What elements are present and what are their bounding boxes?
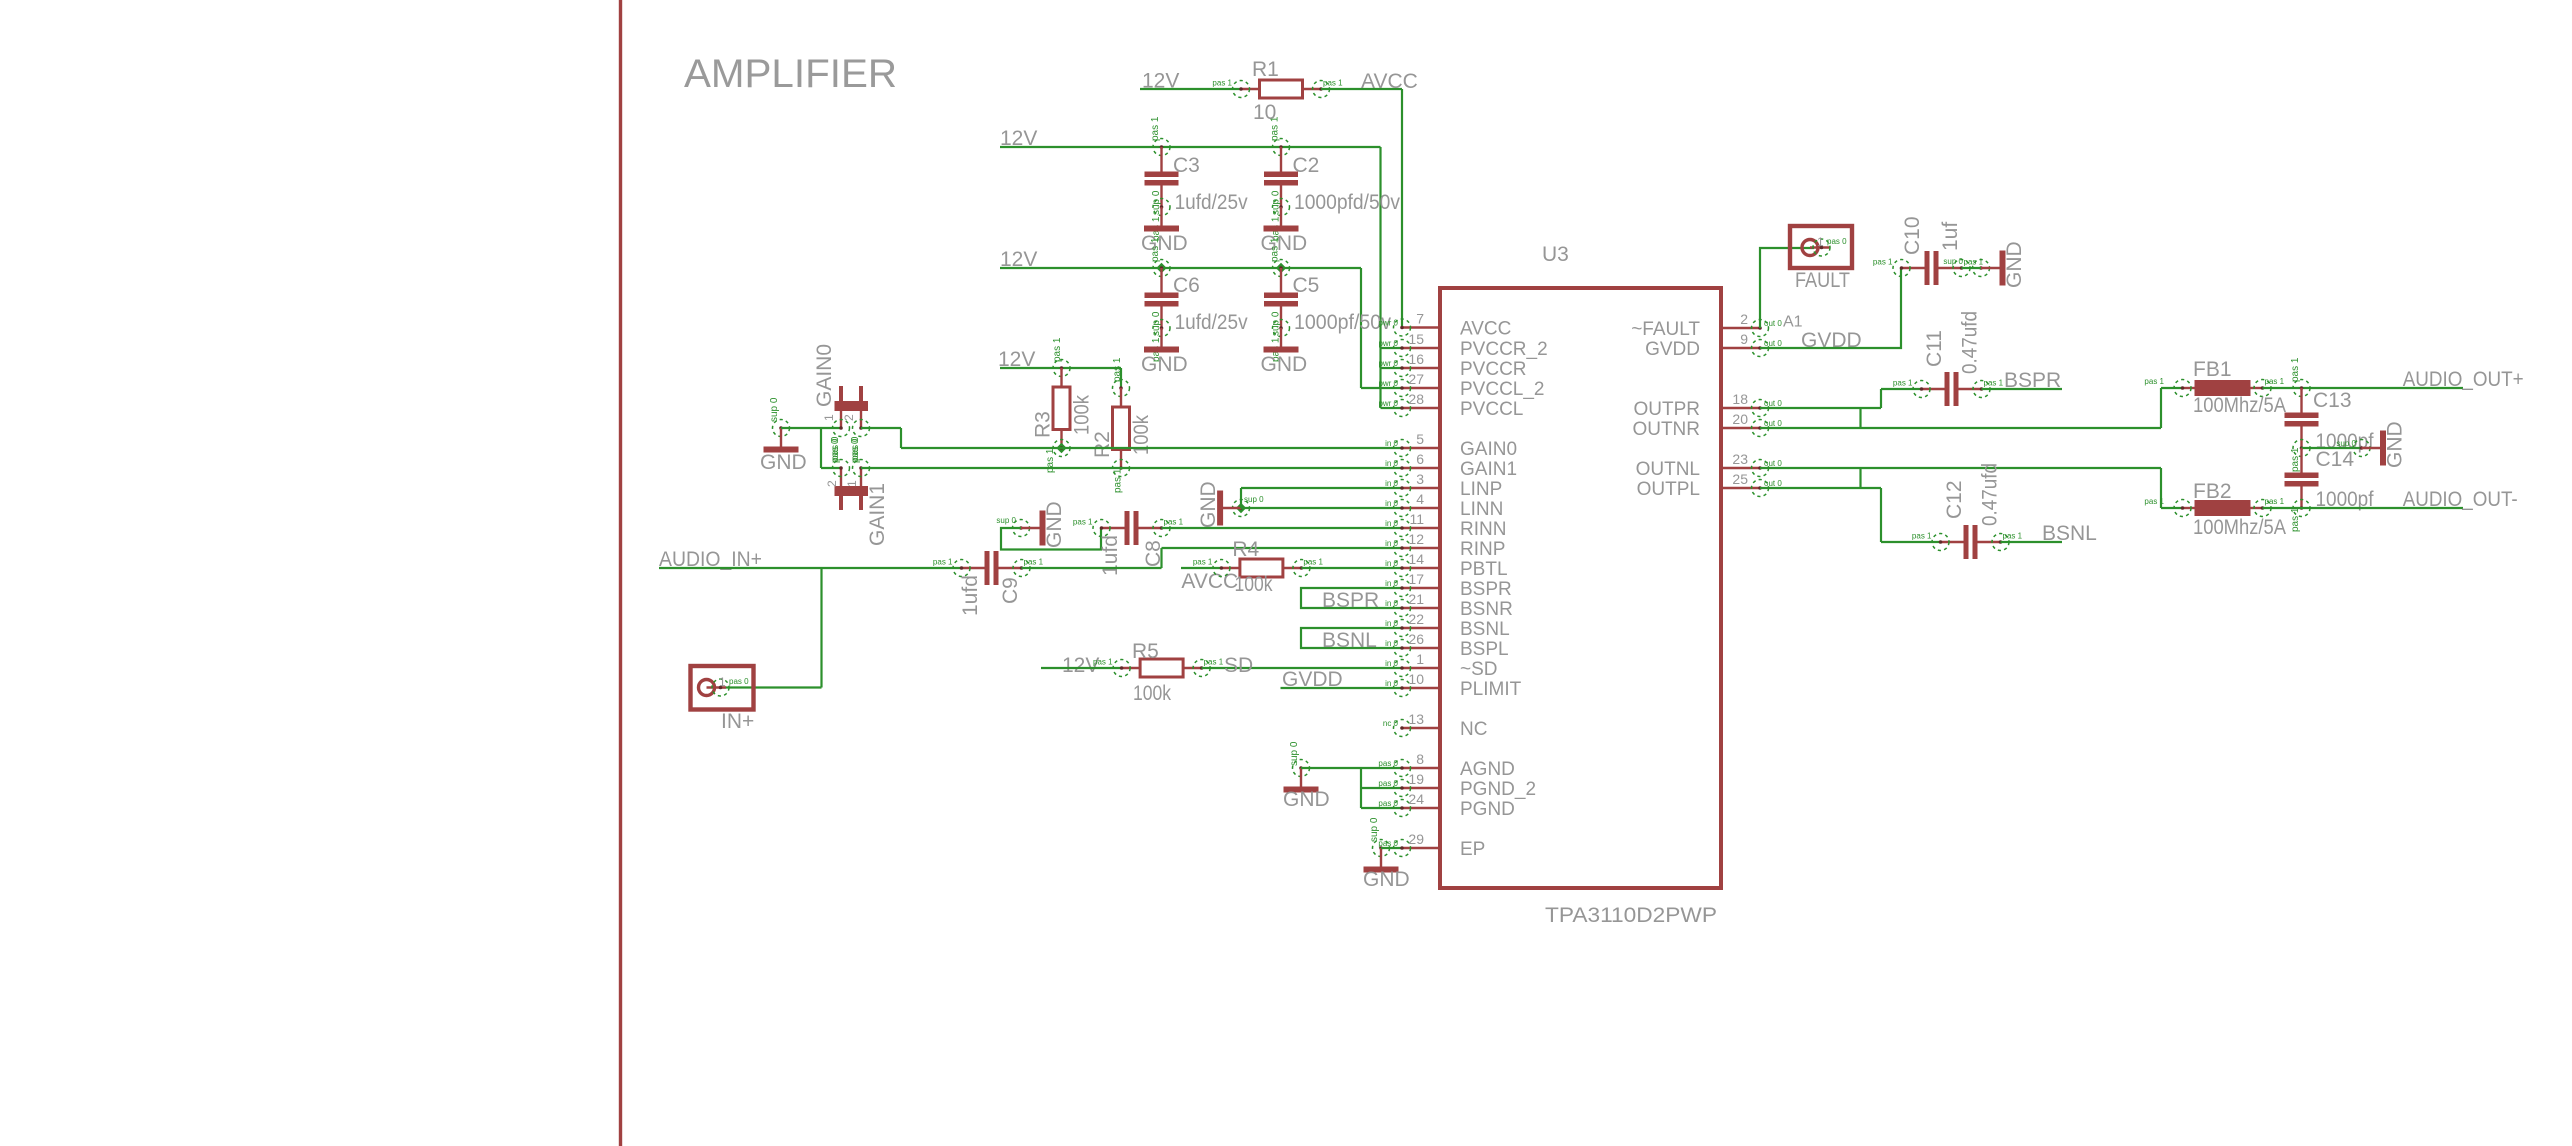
svg-text:3: 3 — [1416, 471, 1424, 487]
svg-text:OUTPL: OUTPL — [1637, 479, 1700, 500]
svg-text:BSNL: BSNL — [2042, 522, 2097, 545]
svg-text:in 0: in 0 — [1385, 559, 1398, 568]
svg-text:8: 8 — [1416, 751, 1424, 767]
GAIN0 pin 1 — [833, 420, 850, 437]
ground symbol at AGND — [1300, 768, 1302, 787]
svg-text:sup 0: sup 0 — [1289, 741, 1300, 766]
svg-text:BSPR: BSPR — [2004, 369, 2061, 392]
U3 pin 29 EP — [1402, 847, 1440, 849]
FAULT pin 1 — [1813, 239, 1830, 256]
wire pin2 to FAULT connector — [1760, 248, 1814, 328]
junction C5 top on rail 2 — [1276, 263, 1286, 273]
U3 pin 9 GVDD — [1721, 347, 1760, 349]
wire OUTPL pin 25 — [1760, 487, 1881, 489]
C11 pin 1 — [1913, 381, 1930, 398]
wire GAIN1 net to pin 6 — [861, 467, 1402, 469]
C8 pin 2 — [1153, 520, 1170, 537]
wire C8 to RINN pin 11 — [1162, 527, 1403, 529]
U3 pin 27 PVCCL_2 — [1402, 387, 1440, 389]
svg-text:5: 5 — [1416, 431, 1424, 447]
svg-text:20: 20 — [1732, 411, 1748, 427]
svg-text:pas 0: pas 0 — [850, 438, 861, 463]
svg-text:AMPLIFIER: AMPLIFIER — [684, 52, 897, 96]
svg-text:R4: R4 — [1232, 538, 1259, 561]
R1 pin 2 — [1313, 81, 1330, 98]
wire to PGND_2 pin 19 — [1361, 787, 1402, 789]
C14 bottom pin on AUDIO_OUT- — [2293, 500, 2310, 517]
C9 pin 1 — [953, 560, 970, 577]
svg-text:pas 1: pas 1 — [1270, 116, 1281, 141]
U3 pin 18 OUTPR — [1721, 407, 1760, 409]
svg-text:AUDIO_OUT-: AUDIO_OUT- — [2403, 488, 2518, 511]
wire stub to pin 16 — [1381, 367, 1403, 369]
svg-text:1ufd/25v: 1ufd/25v — [1175, 311, 1248, 334]
wire AUDIO_OUT- — [2263, 507, 2464, 509]
svg-text:29: 29 — [1408, 831, 1424, 847]
FB2 pin 1 — [2174, 500, 2191, 517]
GAIN0 pin 2 — [853, 420, 870, 437]
svg-text:4: 4 — [1416, 491, 1424, 507]
svg-text:1: 1 — [719, 675, 726, 689]
GAIN1 pin 2 — [833, 460, 850, 477]
wire to C12 — [1881, 541, 1941, 543]
schematic frame border line — [619, 0, 622, 1146]
svg-text:out 0: out 0 — [1764, 479, 1782, 488]
R4 pin 1 — [1213, 560, 1230, 577]
svg-text:1000pf/50v: 1000pf/50v — [1294, 311, 1391, 334]
svg-text:pas 1: pas 1 — [1303, 558, 1323, 567]
svg-text:1: 1 — [1817, 235, 1824, 249]
svg-text:17: 17 — [1408, 571, 1424, 587]
resistor R2 — [1120, 388, 1122, 407]
capacitor C3 top pin — [1153, 139, 1170, 156]
svg-text:pwr 0: pwr 0 — [1378, 319, 1398, 328]
U3 pin 19 PGND_2 — [1402, 787, 1440, 789]
wire up to C11 row — [1880, 389, 1882, 408]
ground pin at EP — [1373, 840, 1390, 857]
wire mid to ground — [2302, 447, 2362, 449]
U3 pin 7 AVCC — [1402, 326, 1440, 328]
svg-text:14: 14 — [1408, 551, 1424, 567]
svg-text:BSNL: BSNL — [1322, 629, 1377, 652]
svg-text:FB2: FB2 — [2193, 480, 2232, 503]
wire RINP to pin 12 — [1162, 547, 1403, 549]
ground symbol right of C13 — [2362, 447, 2381, 449]
svg-text:in 0: in 0 — [1385, 679, 1398, 688]
ground under C2 — [1280, 207, 1282, 226]
U3 pin 3 LINP — [1402, 487, 1440, 489]
svg-text:pas 0: pas 0 — [1378, 779, 1398, 788]
svg-text:PVCCR_2: PVCCR_2 — [1460, 339, 1548, 360]
svg-text:23: 23 — [1732, 451, 1748, 467]
svg-text:C14: C14 — [2316, 448, 2355, 471]
wire GND detour to C8 pin 1 — [1001, 528, 1101, 550]
svg-text:OUTNL: OUTNL — [1636, 459, 1700, 480]
svg-text:pwr 0: pwr 0 — [1378, 379, 1398, 388]
svg-text:6: 6 — [1416, 451, 1424, 467]
svg-text:C13: C13 — [2313, 389, 2352, 412]
svg-text:AVCC: AVCC — [1361, 70, 1418, 93]
wire GAIN0 pin2 right — [861, 427, 901, 429]
ground symbol right of C10 — [1981, 267, 2000, 269]
svg-text:OUTPR: OUTPR — [1634, 399, 1701, 420]
capacitor C12 — [1941, 541, 1964, 543]
svg-text:11: 11 — [1409, 511, 1424, 527]
resistor R3 — [1060, 368, 1062, 387]
svg-text:pas 1: pas 1 — [1193, 558, 1213, 567]
C11 pin 2 — [1973, 381, 1990, 398]
svg-text:FB1: FB1 — [2193, 358, 2232, 381]
wire AUDIO_IN+ to C9 — [659, 567, 962, 569]
svg-text:sup 0: sup 0 — [2336, 439, 2356, 448]
svg-text:sup 0: sup 0 — [1943, 257, 1963, 266]
C5 bottom pin junction — [1273, 320, 1290, 337]
wire pin9 GVDD to C10 — [1760, 268, 1901, 348]
ground symbol at EP — [1380, 848, 1382, 867]
capacitor C9 — [962, 567, 985, 569]
ground at GAIN jumpers — [773, 420, 790, 437]
wire C11 to BSPR stub — [1982, 388, 2063, 390]
wire IN+ connector to riser — [721, 686, 822, 688]
svg-text:pas 1: pas 1 — [1073, 518, 1093, 527]
svg-text:R2: R2 — [1091, 431, 1114, 458]
svg-text:pas 1: pas 1 — [2290, 507, 2301, 532]
C6 bottom pin junction — [1153, 320, 1170, 337]
wire AUDIO_IN+ down to IN+ — [820, 568, 822, 688]
R1 pin 1 — [1233, 81, 1250, 98]
U3 pin 20 OUTNR — [1721, 427, 1760, 429]
U3 pin 8 AGND — [1402, 767, 1440, 769]
svg-text:pas 1: pas 1 — [1113, 468, 1124, 493]
U3 pin 25 OUTPL — [1721, 487, 1760, 489]
wire riser to FB2 — [2160, 468, 2162, 508]
R4 pin 2 — [1293, 560, 1310, 577]
svg-text:100k: 100k — [1235, 573, 1273, 596]
svg-text:GAIN1: GAIN1 — [866, 483, 889, 546]
capacitor C3 — [1160, 147, 1162, 172]
svg-text:28: 28 — [1408, 391, 1424, 407]
svg-text:FAULT: FAULT — [1795, 269, 1850, 292]
svg-text:13: 13 — [1408, 711, 1424, 727]
svg-text:16: 16 — [1408, 351, 1424, 367]
R2 top pin — [1113, 380, 1130, 397]
resistor R1 — [1241, 88, 1260, 90]
R5 pin 1 — [1113, 660, 1130, 677]
capacitor C10 — [1902, 267, 1925, 269]
C10 pin 2 — [1953, 260, 1970, 277]
svg-text:GND: GND — [1141, 232, 1188, 255]
svg-text:out 0: out 0 — [1764, 459, 1782, 468]
U3 pin 5 GAIN0 — [1402, 447, 1440, 449]
wire R1 to AVCC corner — [1321, 88, 1402, 90]
wire AVCC to R4 — [1181, 567, 1221, 569]
svg-text:pas 1: pas 1 — [1323, 79, 1343, 88]
svg-text:in 0: in 0 — [1385, 659, 1398, 668]
wire 12V to R5 — [1041, 667, 1122, 669]
ground symbol GAIN area — [780, 428, 782, 447]
svg-text:C9: C9 — [999, 577, 1022, 604]
svg-text:in 0: in 0 — [1385, 599, 1398, 608]
svg-text:pas 1: pas 1 — [2265, 497, 2285, 506]
svg-text:in 0: in 0 — [1385, 619, 1398, 628]
wire GND to AGND pin 8 — [1301, 767, 1402, 769]
jumper GAIN0 — [835, 401, 869, 411]
svg-text:7: 7 — [1416, 311, 1424, 327]
svg-text:pas 1: pas 1 — [2144, 497, 2164, 506]
wire 12V rail 3 — [1000, 367, 1121, 369]
svg-text:GND: GND — [1363, 868, 1410, 891]
capacitor C2 — [1280, 147, 1282, 172]
wire 12V rail 2 — [1000, 267, 1361, 269]
svg-text:~FAULT: ~FAULT — [1631, 319, 1700, 340]
U3 pin 13 NC — [1402, 727, 1440, 729]
svg-text:C5: C5 — [1293, 274, 1320, 297]
U3 pin 15 PVCCR_2 — [1402, 347, 1440, 349]
ground under C6 — [1160, 328, 1162, 347]
wire OUTNL pin 23 to FB2 riser — [1760, 467, 2161, 469]
svg-text:pas 1: pas 1 — [1873, 258, 1893, 267]
svg-text:C3: C3 — [1173, 154, 1200, 177]
svg-text:pas 1: pas 1 — [1164, 518, 1184, 527]
svg-text:PGND: PGND — [1460, 799, 1515, 820]
ground under C3 — [1160, 207, 1162, 226]
svg-text:pas 0: pas 0 — [1378, 799, 1398, 808]
svg-text:in 0: in 0 — [1385, 499, 1398, 508]
svg-text:GND: GND — [2384, 421, 2407, 468]
U3 pin 26 BSPL — [1402, 647, 1440, 649]
svg-text:pas 1: pas 1 — [1045, 448, 1056, 473]
wire corner up — [1160, 548, 1162, 568]
jumper GAIN1 — [835, 486, 869, 496]
resistor R4 — [1221, 567, 1240, 569]
IC U3 TPA3110D2PWP body — [1440, 288, 1721, 888]
wire rail2 vertical to pin 27 — [1360, 268, 1362, 388]
wire R5 to ~SD pin 1 — [1202, 667, 1402, 669]
svg-text:pwr 0: pwr 0 — [1378, 359, 1398, 368]
svg-text:C12: C12 — [1943, 480, 1966, 519]
svg-text:PGND_2: PGND_2 — [1460, 779, 1536, 800]
svg-text:pas 1: pas 1 — [2290, 357, 2301, 382]
capacitor C11 — [1922, 388, 1945, 390]
svg-text:2: 2 — [825, 480, 839, 487]
svg-text:PVCCR: PVCCR — [1460, 359, 1527, 380]
svg-text:2: 2 — [1740, 311, 1748, 327]
wire GND to GAIN0 pin 1 — [781, 427, 841, 429]
svg-text:pwr 0: pwr 0 — [1378, 399, 1398, 408]
svg-text:pas 1: pas 1 — [1893, 379, 1913, 388]
svg-text:PVCCL_2: PVCCL_2 — [1460, 379, 1545, 400]
svg-text:~SD: ~SD — [1460, 659, 1498, 680]
C8 pin 1 — [1093, 520, 1110, 537]
C3 bottom pin junction — [1153, 199, 1170, 216]
wire 12V rail 1 — [1000, 146, 1381, 148]
svg-text:A1: A1 — [1783, 314, 1803, 331]
wire LINP branch vertical — [1240, 488, 1242, 508]
svg-text:GAIN0: GAIN0 — [1460, 439, 1517, 460]
R2 bottom pin — [1113, 460, 1130, 477]
svg-text:pas 1: pas 1 — [1112, 357, 1123, 382]
svg-text:in 0: in 0 — [1385, 439, 1398, 448]
connector FAULT — [1790, 226, 1852, 268]
svg-text:C11: C11 — [1923, 330, 1946, 367]
wire stub to pin 28 — [1381, 407, 1403, 409]
svg-text:SD: SD — [1224, 654, 1253, 677]
svg-text:sup 0: sup 0 — [996, 516, 1016, 525]
ferrite bead FB1 — [2183, 387, 2195, 389]
svg-text:IN+: IN+ — [721, 710, 754, 733]
ferrite bead FB2 — [2183, 507, 2195, 509]
ground symbol at C8 — [1021, 527, 1040, 529]
wire R4 to PBTL pin 14 — [1302, 567, 1403, 569]
svg-text:pas 1: pas 1 — [1024, 558, 1044, 567]
svg-text:pas 1: pas 1 — [1912, 532, 1932, 541]
svg-text:out 0: out 0 — [1764, 319, 1782, 328]
svg-text:C10: C10 — [1901, 216, 1924, 255]
svg-text:in 0: in 0 — [1385, 579, 1398, 588]
svg-text:pas 0: pas 0 — [830, 438, 841, 463]
svg-text:NC: NC — [1460, 719, 1487, 740]
junction C6 top on rail 2 — [1156, 263, 1166, 273]
wire 12V to R1 — [1140, 88, 1241, 90]
svg-text:100k: 100k — [1133, 682, 1171, 705]
svg-text:sup 0: sup 0 — [1244, 495, 1264, 504]
svg-text:AVCC: AVCC — [1181, 570, 1238, 593]
C12 pin 1 — [1932, 534, 1949, 551]
U3 pin 16 PVCCR — [1402, 367, 1440, 369]
svg-text:1: 1 — [822, 414, 836, 421]
svg-text:AGND: AGND — [1460, 759, 1515, 780]
ground pin at AGND — [1293, 760, 1310, 777]
FB1 pin 2 — [2254, 380, 2271, 397]
U3 pin 23 OUTNL — [1721, 467, 1760, 469]
svg-text:in 0: in 0 — [1385, 539, 1398, 548]
FB1 pin 1 — [2174, 380, 2191, 397]
svg-text:19: 19 — [1408, 771, 1424, 787]
ground symbol at LINN — [1223, 507, 1242, 509]
wire BSPR loop pins 17-21 — [1301, 588, 1402, 608]
svg-text:1ufd: 1ufd — [1099, 535, 1122, 576]
wire to PGND pin 24 — [1361, 807, 1402, 809]
wire GVDD to PLIMIT pin 10 — [1281, 687, 1403, 689]
wire C9 to corner — [1022, 567, 1162, 569]
svg-text:1: 1 — [845, 480, 859, 487]
wire to C11 — [1881, 388, 1921, 390]
svg-text:pas 0: pas 0 — [1378, 839, 1398, 848]
svg-text:RINP: RINP — [1460, 539, 1505, 560]
svg-text:BSNL: BSNL — [1460, 619, 1510, 640]
ground pin right of C10 — [1973, 260, 1990, 277]
svg-text:sup 0: sup 0 — [769, 397, 780, 422]
U3 pin 1 ~SD — [1402, 667, 1440, 669]
svg-text:0.47ufd: 0.47ufd — [1979, 463, 2002, 526]
svg-text:pwr 0: pwr 0 — [1378, 339, 1398, 348]
svg-text:LINP: LINP — [1460, 479, 1502, 500]
U3 pin 10 PLIMIT — [1402, 687, 1440, 689]
capacitor C14 — [2300, 448, 2302, 473]
svg-text:EP: EP — [1460, 839, 1485, 860]
wire stub to pin 15 — [1381, 347, 1403, 349]
junction LINN ground — [1236, 503, 1246, 513]
svg-text:10: 10 — [1408, 671, 1424, 687]
svg-text:C2: C2 — [1293, 154, 1320, 177]
svg-text:22: 22 — [1408, 611, 1424, 627]
C12 pin 2 — [1992, 534, 2009, 551]
svg-text:PVCCL: PVCCL — [1460, 399, 1523, 420]
svg-text:pas 1: pas 1 — [1204, 658, 1224, 667]
wire GAIN0 net to pin 5 — [901, 447, 1402, 449]
svg-text:pas 0: pas 0 — [1827, 237, 1847, 246]
wire BSNL loop pins 22-26 — [1301, 628, 1402, 648]
svg-text:out 0: out 0 — [1764, 419, 1782, 428]
svg-text:PLIMIT: PLIMIT — [1460, 679, 1522, 700]
svg-text:15: 15 — [1408, 331, 1424, 347]
svg-text:RINN: RINN — [1460, 519, 1506, 540]
connector IN+ — [691, 666, 754, 710]
svg-text:GND: GND — [1141, 353, 1188, 376]
svg-text:26: 26 — [1408, 631, 1424, 647]
svg-text:GND: GND — [1261, 232, 1308, 255]
wire down to GAIN0 net row — [900, 428, 902, 448]
svg-text:OUTNR: OUTNR — [1632, 419, 1700, 440]
R5 pin 2 — [1193, 660, 1210, 677]
wire OUTPR pin 18 — [1760, 407, 1881, 409]
U3 pin 4 LINN — [1402, 507, 1440, 509]
svg-text:LINN: LINN — [1460, 499, 1503, 520]
svg-text:in 0: in 0 — [1385, 639, 1398, 648]
wire to FB2 pin 1 — [2161, 507, 2183, 509]
wire rail3 down to R2 — [1120, 368, 1122, 388]
svg-text:pas 1: pas 1 — [2290, 447, 2301, 472]
wire stub to pin 27 — [1361, 387, 1402, 389]
svg-text:in 0: in 0 — [1385, 479, 1398, 488]
svg-text:100Mhz/5A: 100Mhz/5A — [2193, 394, 2286, 417]
svg-text:GAIN0: GAIN0 — [813, 344, 836, 407]
U3 pin 12 RINP — [1402, 547, 1440, 549]
svg-text:GND: GND — [1261, 353, 1308, 376]
svg-text:1ufd: 1ufd — [959, 575, 982, 616]
wire to GAIN1 pin — [821, 467, 841, 469]
U3 pin 22 BSNL — [1402, 627, 1440, 629]
U3 pin 21 BSNR — [1402, 607, 1440, 609]
U3 pin 14 PBTL — [1402, 567, 1440, 569]
ground pin near C8 — [1013, 520, 1030, 537]
ground under C5 — [1280, 328, 1282, 347]
svg-text:GVDD: GVDD — [1645, 339, 1700, 360]
svg-text:BSPL: BSPL — [1460, 639, 1509, 660]
U3 pin 2 ~FAULT — [1721, 327, 1760, 329]
svg-text:1ufd/25v: 1ufd/25v — [1175, 191, 1248, 214]
svg-text:25: 25 — [1732, 471, 1748, 487]
svg-text:pas 1: pas 1 — [1212, 79, 1232, 88]
wire join 18-20 — [1859, 408, 1861, 428]
wire join 23-25 — [1859, 468, 1861, 488]
svg-text:C6: C6 — [1173, 274, 1200, 297]
svg-text:pas 1: pas 1 — [1052, 337, 1063, 362]
wire branch down to GAIN1 row — [820, 428, 822, 468]
resistor R5 — [1122, 667, 1141, 669]
svg-text:pas 1: pas 1 — [1150, 237, 1161, 262]
svg-text:GND: GND — [1197, 481, 1220, 528]
C10 pin 1 — [1893, 260, 1910, 277]
svg-text:pas 1: pas 1 — [1150, 116, 1161, 141]
svg-text:out 0: out 0 — [1764, 339, 1782, 348]
capacitor C2 top pin — [1273, 139, 1290, 156]
svg-text:GND: GND — [2003, 241, 2026, 288]
U3 pin 17 BSPR — [1402, 587, 1440, 589]
svg-text:pas 1: pas 1 — [2003, 532, 2023, 541]
svg-text:R1: R1 — [1252, 58, 1279, 81]
svg-text:18: 18 — [1732, 391, 1748, 407]
